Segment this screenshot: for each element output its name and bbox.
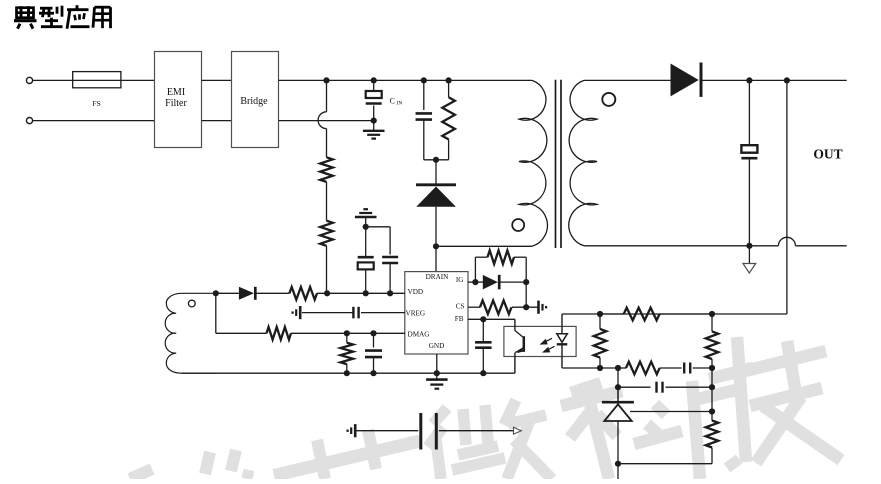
transformer primary dot — [512, 219, 524, 231]
capacitor comp — [684, 363, 690, 374]
label FB — [455, 315, 464, 323]
label CIN — [390, 97, 403, 107]
capacitor FB — [475, 342, 492, 347]
wire — [786, 80, 788, 314]
node — [472, 279, 478, 285]
node — [433, 243, 439, 249]
node — [523, 279, 529, 285]
wire — [748, 158, 750, 246]
node — [480, 316, 486, 322]
resistor FB upper — [624, 308, 660, 321]
wire — [326, 80, 328, 111]
title 典型应用 — [14, 5, 111, 29]
capacitor output — [741, 145, 757, 158]
opto light arrows — [540, 338, 555, 352]
wire — [448, 139, 450, 159]
wire — [257, 292, 290, 294]
capacitor Y — [421, 413, 437, 450]
wire — [499, 281, 526, 283]
wire — [279, 79, 533, 81]
wire — [373, 357, 375, 373]
svg-text:OUT: OUT — [813, 147, 842, 162]
node — [615, 461, 621, 467]
wire — [748, 80, 750, 145]
node — [323, 77, 451, 83]
resistor divider upper — [706, 331, 719, 359]
wire — [366, 226, 390, 228]
wire — [215, 293, 217, 333]
label VDD — [408, 288, 424, 296]
wire — [182, 372, 515, 374]
node — [363, 224, 369, 230]
svg-text:EMI: EMI — [167, 87, 185, 98]
svg-text:VREG: VREG — [406, 309, 426, 317]
node — [213, 290, 219, 296]
wire — [475, 256, 487, 258]
capacitor VDD hf — [382, 257, 398, 263]
node — [597, 311, 715, 317]
node — [433, 157, 439, 163]
wire — [693, 367, 712, 369]
opto transistor — [515, 319, 524, 373]
wire — [202, 120, 232, 122]
label GND — [429, 342, 445, 350]
wire — [436, 354, 438, 379]
resistor VDD series — [289, 287, 317, 300]
wire — [373, 106, 375, 131]
wire — [599, 358, 601, 368]
bridge rectifier block — [232, 52, 279, 148]
wire — [468, 281, 483, 283]
resistor snubber R — [442, 97, 455, 139]
wire — [435, 246, 437, 271]
label OUT — [813, 147, 842, 162]
wire — [482, 349, 484, 374]
svg-text:CS: CS — [456, 302, 465, 310]
wire — [795, 245, 846, 247]
wire — [482, 319, 484, 341]
svg-text:IG: IG — [456, 276, 464, 284]
label EMI Filter — [165, 87, 187, 109]
wire — [346, 333, 348, 342]
svg-text:FS: FS — [92, 99, 100, 108]
wire — [435, 160, 437, 184]
wire — [599, 314, 601, 329]
wire — [435, 207, 437, 247]
diode VDD rectifier — [239, 287, 255, 300]
fuse FS — [73, 72, 121, 88]
resistor divider lower — [706, 421, 719, 448]
capacitor snubber C — [416, 113, 433, 119]
wire — [216, 292, 239, 294]
opto LED — [557, 314, 568, 368]
resistor startup R2 — [320, 221, 333, 246]
node — [746, 77, 790, 83]
wire — [365, 227, 367, 256]
wire — [291, 332, 405, 334]
resistor IG parallel — [488, 250, 515, 264]
wire — [617, 387, 619, 479]
wire — [317, 292, 405, 294]
ground inverted — [355, 209, 377, 217]
wire — [373, 80, 375, 91]
wire — [711, 412, 713, 421]
wire — [355, 430, 418, 432]
resistor comp — [626, 362, 660, 375]
svg-text:C: C — [390, 97, 395, 106]
ground Y-cap side — [348, 424, 356, 437]
resistor CS — [480, 300, 512, 314]
wire — [33, 120, 155, 122]
wire — [361, 312, 405, 314]
net arrow — [514, 427, 522, 434]
wire — [326, 246, 328, 293]
wire — [584, 245, 778, 247]
optocoupler U2 — [504, 326, 576, 356]
node — [344, 370, 487, 376]
svg-text:DMAG: DMAG — [408, 330, 430, 338]
transformer primary winding — [519, 80, 547, 246]
IC controller U1 — [405, 272, 468, 354]
node — [709, 365, 715, 371]
label CS — [456, 302, 465, 310]
wire — [439, 430, 514, 432]
node — [597, 365, 621, 371]
resistor DMAG filter — [341, 343, 354, 364]
watermark — [130, 337, 841, 479]
svg-text:Bridge: Bridge — [240, 96, 268, 107]
resistor DMAG series — [267, 327, 292, 340]
wire — [711, 314, 713, 331]
wire — [468, 318, 515, 320]
TL431 shunt regulator — [602, 402, 634, 421]
wire — [423, 80, 425, 110]
wire — [618, 386, 651, 388]
wire — [701, 79, 847, 81]
wire — [600, 313, 624, 315]
transformer secondary winding — [569, 80, 597, 245]
wire — [711, 448, 713, 464]
input terminal top — [26, 77, 32, 83]
wire — [302, 312, 353, 314]
ground GND pin — [426, 380, 448, 389]
ground CS side — [539, 301, 547, 314]
aux winding — [165, 293, 216, 373]
wire — [514, 256, 526, 258]
svg-text:DRAIN: DRAIN — [426, 273, 450, 281]
resistor startup R1 — [320, 157, 333, 182]
svg-text:IN: IN — [397, 101, 403, 107]
label VREG — [406, 309, 426, 317]
wire hop — [778, 237, 795, 245]
wire — [279, 120, 374, 122]
svg-text:Filter: Filter — [165, 98, 187, 109]
capacitor comp2 — [657, 382, 663, 393]
wire — [512, 306, 539, 308]
wire — [216, 332, 267, 334]
wire — [468, 306, 480, 308]
wire hop — [318, 112, 326, 129]
wire — [748, 246, 750, 264]
resistor opto bias — [594, 329, 607, 358]
wire — [562, 313, 787, 315]
input terminal bottom — [26, 118, 32, 124]
capacitor DMAG filter — [365, 351, 382, 358]
EMI filter block — [155, 52, 202, 148]
node — [615, 384, 621, 390]
label IG — [456, 276, 464, 284]
wire — [448, 80, 450, 97]
wire — [389, 227, 391, 255]
svg-text:VDD: VDD — [408, 288, 424, 296]
label FS — [92, 99, 100, 108]
ground secondary — [743, 264, 756, 274]
diode IG — [483, 275, 499, 290]
wire — [389, 263, 391, 293]
wire — [373, 333, 375, 347]
node — [523, 304, 529, 310]
wire — [474, 257, 476, 282]
aux winding dot — [188, 300, 195, 307]
wire — [666, 386, 713, 388]
wire — [326, 182, 328, 221]
wire — [660, 313, 712, 315]
wire — [660, 367, 682, 369]
svg-text:FB: FB — [455, 315, 464, 323]
wire — [584, 79, 671, 81]
capacitor CIN — [366, 91, 382, 104]
wire — [436, 245, 532, 247]
wire — [618, 463, 712, 465]
transformer secondary dot — [602, 93, 615, 106]
diode output rectifier — [671, 63, 702, 97]
label DRAIN — [426, 273, 450, 281]
wire — [346, 364, 348, 373]
wire — [424, 159, 449, 161]
ground VREG — [293, 306, 301, 319]
wire — [365, 269, 367, 293]
node — [709, 384, 715, 415]
capacitor VREG — [353, 307, 358, 319]
node — [344, 330, 377, 336]
wire — [525, 257, 527, 307]
capacitor VDD bulk — [358, 257, 374, 269]
wire TL431 ref — [630, 411, 712, 413]
ground — [363, 131, 385, 139]
wire — [365, 217, 367, 227]
node — [746, 243, 752, 249]
wire — [562, 367, 626, 369]
transformer core — [556, 80, 562, 248]
diode clamp — [416, 185, 456, 207]
wire — [326, 129, 328, 158]
node — [324, 290, 393, 296]
label Bridge — [240, 96, 268, 107]
node — [371, 118, 377, 124]
wire — [33, 79, 155, 81]
wire — [423, 120, 425, 160]
wire — [617, 368, 619, 402]
label DMAG — [408, 330, 430, 338]
svg-text:GND: GND — [429, 342, 445, 350]
wire — [711, 359, 713, 411]
wire — [202, 79, 232, 81]
